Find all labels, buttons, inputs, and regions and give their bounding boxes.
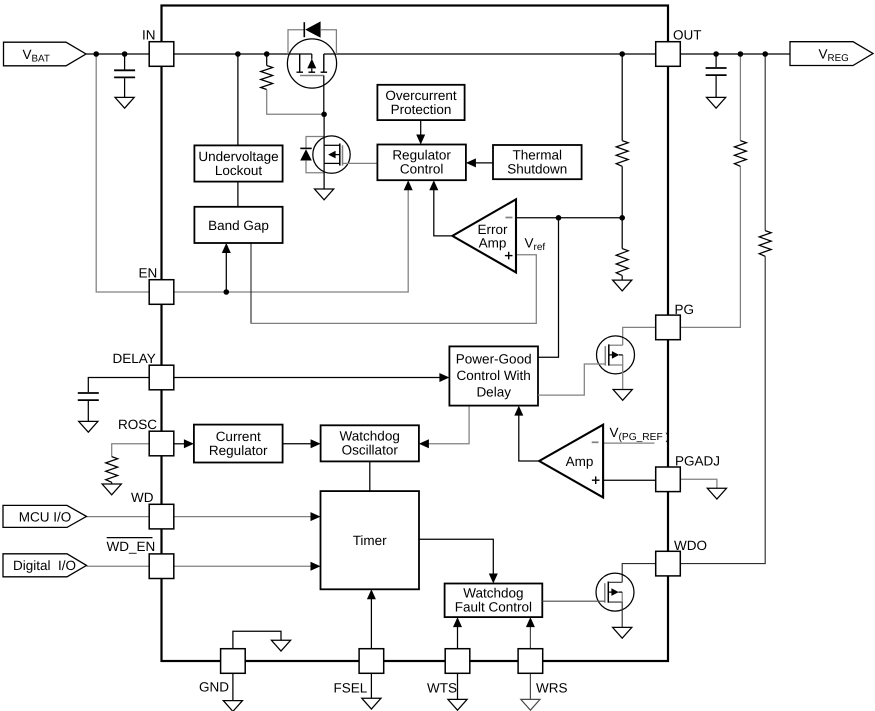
wire: EN junction up to Band Gap (arrow shaft) <box>225 252 227 293</box>
svg-text:Band Gap: Band Gap <box>208 218 269 233</box>
resistor R2 (feedback divider top) <box>616 141 628 167</box>
svg-text:Current: Current <box>216 429 261 444</box>
transistor Q2 body diode <box>300 148 312 160</box>
node: UVLO tap junction <box>235 51 241 57</box>
svg-text:Undervoltage: Undervoltage <box>198 149 278 164</box>
flag MCU I/O <box>3 505 87 527</box>
arrowhead: WRS to Watchdog Fault Control <box>526 617 535 627</box>
wire: Q3 gate to Power-Good Control (gray) <box>538 364 605 395</box>
svg-text:Protection: Protection <box>391 102 452 117</box>
wire: Current Regulator to Watchdog Oscillator (arrow shaft) <box>283 443 313 445</box>
svg-text:Digital I/O: Digital I/O <box>13 558 76 573</box>
arrowhead: Overcurrent Protection to Regulator Control <box>416 135 425 145</box>
svg-text:Thermal: Thermal <box>513 147 563 162</box>
wire: divider bottom to ground <box>621 276 623 281</box>
wire: GND pin internal reference <box>233 631 281 649</box>
pin OUT <box>656 42 681 67</box>
node: R1 tap junction <box>264 51 270 57</box>
wire: Q2 drain-source through line <box>323 114 325 189</box>
pin EN <box>149 280 174 305</box>
ground (feedback divider) <box>613 280 632 291</box>
wire: VBAT rail into IN pin and to pass FET left rail <box>86 53 312 55</box>
arrowhead: Error Amp to Regulator Control <box>429 180 438 190</box>
wire: GND pin external stub <box>232 673 234 700</box>
wire: WDO pull-up to WDO pin (gray) <box>680 256 765 563</box>
flag Digital I/O <box>3 554 87 577</box>
pin GND <box>221 649 246 674</box>
wire: Amp output up to Power-Good Control <box>519 415 539 462</box>
wire: IN rail down to Undervoltage Lockout <box>237 54 239 145</box>
node: EN to Band Gap junction <box>224 289 230 295</box>
node: PG pull-up junction <box>738 51 744 57</box>
svg-text:Delay: Delay <box>476 384 511 399</box>
wire: Timer output to Watchdog Fault Control <box>419 539 493 575</box>
wire: ROSC external resistor (gray) <box>112 444 150 457</box>
pin IN <box>149 42 174 67</box>
svg-text:WTS: WTS <box>427 681 457 696</box>
ground (FSEL pin) <box>362 698 381 709</box>
wire: Overcurrent Protection to Regulator Control (arrow shaft) <box>420 120 422 136</box>
svg-text:Fault Control: Fault Control <box>455 600 532 615</box>
transistor Q2 (gate driver NMOS) <box>313 114 378 189</box>
svg-text:Regulator: Regulator <box>209 443 268 458</box>
wire: ROSC pin to Current Regulator (arrow shaft) <box>174 443 186 445</box>
wire: Watchdog Oscillator to Timer <box>369 461 371 491</box>
undervoltage lockout block <box>194 145 282 181</box>
pass transistor Q1 body diode loop <box>288 30 336 54</box>
wire: Band Gap Vref output to Error Amp + input (gray) <box>250 243 252 324</box>
wire: Undervoltage Lockout to Band Gap <box>237 182 239 207</box>
wire: Digital I/O to WD_EN pin (gray) <box>87 565 150 567</box>
svg-text:Control With: Control With <box>457 368 531 383</box>
label: amp minus <box>592 441 599 443</box>
wire: WRS pin to Watchdog Fault Control (gray, arrow shaft) <box>529 626 531 649</box>
pin WD <box>149 504 174 529</box>
svg-text:WRS: WRS <box>536 681 568 696</box>
resistor R6 (ROSC) <box>106 457 118 483</box>
wire: DELAY pin to Power-Good Control (arrow shaft) <box>174 377 441 379</box>
pin WD_EN <box>149 554 174 579</box>
svg-text:Watchdog: Watchdog <box>340 429 400 444</box>
ground (delay capacitor) <box>79 421 98 432</box>
flag VBAT <box>4 42 87 66</box>
wire: Error Amp minus input to feedback divider node <box>516 217 622 219</box>
wire: Vref node down to Power-Good Control right edge <box>538 218 559 357</box>
svg-text:PGADJ: PGADJ <box>675 454 720 469</box>
svg-text:Oscillator: Oscillator <box>342 443 399 458</box>
ground (output capacitor) <box>707 97 726 108</box>
wire: WRS pin external stub (gray) <box>529 673 531 699</box>
svg-text:OUT: OUT <box>673 28 702 43</box>
svg-text:EN: EN <box>139 266 158 281</box>
op-amp U1 (Error Amp) <box>452 199 516 272</box>
wire: PG pull-up to PG pin (gray) <box>680 166 740 327</box>
svg-text:GND: GND <box>199 680 229 695</box>
label: error amp plus <box>505 252 513 260</box>
pin WRS <box>518 649 543 674</box>
ground (GND pin) <box>223 701 242 711</box>
capacitor C1 (input) <box>114 54 135 97</box>
wire: FSEL pin to Timer (arrow shaft) <box>370 598 372 649</box>
ground (Q3 source) <box>613 390 632 401</box>
wire: R1 to gate node (gray) <box>267 90 322 115</box>
wire: Error Amp output to Regulator Control <box>434 190 453 236</box>
wire: WDO pull-up from VREG rail (gray) <box>764 54 766 231</box>
capacitor C3 (delay) <box>78 378 149 422</box>
thermal shutdown block <box>493 145 582 179</box>
pin ROSC <box>149 431 174 456</box>
svg-text:Lockout: Lockout <box>215 163 263 178</box>
arrowhead: DELAY to Power-Good Control <box>439 373 449 382</box>
wire: PG pull-up from VREG rail (gray) <box>739 54 741 141</box>
ground (PGADJ) <box>707 488 726 499</box>
node: input capacitor junction <box>122 51 128 57</box>
ground (WRS pin) <box>521 699 540 710</box>
watchdog oscillator block <box>321 425 419 461</box>
arrowhead: ROSC to Current Regulator <box>184 439 194 448</box>
wire: feedback divider top from OUT rail <box>621 54 623 141</box>
power-good control with delay block <box>449 346 538 405</box>
node: Vref sense junction <box>556 215 562 221</box>
watchdog fault control block <box>445 584 543 618</box>
wire: VBAT to EN pin (gray) <box>96 54 149 292</box>
svg-text:PG: PG <box>675 302 695 317</box>
pin PGADJ <box>656 467 681 492</box>
svg-text:DELAY: DELAY <box>113 351 156 366</box>
node: VBAT-EN junction <box>93 51 99 57</box>
wire: Q1 gate down to gate node <box>323 76 325 115</box>
svg-text:FSEL: FSEL <box>334 681 368 696</box>
svg-text:WD_EN: WD_EN <box>107 539 156 554</box>
svg-text:ROSC: ROSC <box>118 417 157 432</box>
label: error amp minus <box>506 217 513 219</box>
arrowhead: Amp to Power-Good Control <box>514 406 523 416</box>
wire: WTS pin to Watchdog Fault Control (arrow shaft) <box>457 626 459 649</box>
ground (input capacitor) <box>115 97 134 108</box>
arrowhead: FSEL to Timer <box>367 589 376 599</box>
arrowhead: Thermal Shutdown to Regulator Control <box>466 158 476 167</box>
node: feedback divider tap on rail <box>619 51 625 57</box>
wire: WTS pin external stub <box>457 673 459 699</box>
arrowhead: WTS to Watchdog Fault Control <box>453 617 462 627</box>
node: feedback divider mid junction <box>619 215 625 221</box>
overcurrent protection block <box>377 85 464 120</box>
wire: Amp plus input to PGADJ pin <box>603 479 656 481</box>
band gap block <box>194 207 282 243</box>
wire: WD pin to Timer (gray, arrow shaft) <box>174 516 312 518</box>
ground (WTS pin) <box>448 699 467 710</box>
transistor Q4 (WDO open-drain NMOS) <box>542 564 655 628</box>
wire: Power-Good Control to Watchdog Oscillator (gray) <box>427 406 469 444</box>
transistor Q2 body diode loop <box>306 137 324 173</box>
label: amp plus <box>592 476 600 484</box>
regulator control block <box>377 145 466 181</box>
timer block <box>321 491 420 589</box>
svg-text:WD: WD <box>131 490 154 505</box>
wire: EN pin to Regulator Control riser (gray) <box>174 190 408 293</box>
svg-text:Watchdog: Watchdog <box>463 586 523 601</box>
pin WTS <box>445 649 470 674</box>
arrowhead: Timer to Watchdog Fault Control <box>489 574 498 584</box>
node: output capacitor junction <box>713 51 719 57</box>
wire: Q4 gate to Watchdog Fault Control (gray) <box>542 600 605 602</box>
chip boundary <box>162 6 669 662</box>
resistor R4 (PG pull-up) <box>734 141 746 167</box>
svg-text:Timer: Timer <box>353 533 387 548</box>
ground (Q2 source) <box>315 189 334 200</box>
flag VREG <box>790 42 873 66</box>
capacitor C2 (output) <box>706 54 727 97</box>
arrowhead: Power-Good Control to Watchdog Oscillator <box>419 439 429 448</box>
wire: FSEL pin external stub <box>370 673 372 698</box>
node: Q1 gate node junction <box>321 112 327 118</box>
svg-text:Amp: Amp <box>566 454 594 469</box>
wire: Q2 gate to Regulator Control (gray) <box>343 162 378 164</box>
wire: divider between resistors <box>621 166 623 248</box>
resistor R3 (feedback divider bottom) <box>616 249 628 276</box>
svg-text:Overcurrent: Overcurrent <box>385 88 457 103</box>
arrowhead: Current Regulator to Watchdog Oscillator <box>311 439 321 448</box>
wire: Amp minus input internal reference (gray) <box>603 442 654 444</box>
ground (ROSC resistor) <box>102 482 121 495</box>
transistor Q3 (PG open-drain NMOS) <box>538 327 656 395</box>
pin PG <box>656 315 681 340</box>
svg-text:Power-Good: Power-Good <box>456 352 532 367</box>
svg-text:IN: IN <box>142 28 156 43</box>
pin WDO <box>656 551 681 576</box>
svg-text:Regulator: Regulator <box>392 148 451 163</box>
pin DELAY <box>149 365 174 390</box>
svg-text:WDO: WDO <box>674 538 707 553</box>
wire: pass FET right rail to OUT pin and VREG flag <box>324 53 790 55</box>
svg-text:Control: Control <box>400 162 444 177</box>
arrowhead: WD_EN to Timer <box>311 562 321 571</box>
ground (GND internal reference) <box>271 640 290 651</box>
ground (Q4 source) <box>613 627 632 638</box>
node: WDO pull-up junction <box>762 51 768 57</box>
wire: MCU I/O to WD pin (gray) <box>87 516 150 518</box>
pass transistor Q1 body diode <box>304 21 320 37</box>
pass transistor Q1 (PMOS) <box>287 39 336 114</box>
current regulator block <box>194 425 283 463</box>
svg-text:MCU I/O: MCU I/O <box>19 509 72 524</box>
svg-text:Shutdown: Shutdown <box>507 161 567 176</box>
pin FSEL <box>359 649 384 674</box>
wire: Thermal Shutdown to Regulator Control (arrow shaft) <box>475 162 494 164</box>
op-amp U2 (Amp, power-good comparator) <box>539 425 603 498</box>
arrowhead: EN to Regulator Control <box>404 180 413 190</box>
arrowhead: WD to Timer <box>311 512 321 521</box>
resistor R1 (Q1 gate pull-up) <box>261 54 322 114</box>
wire: PGADJ to ground (gray) <box>680 479 717 488</box>
svg-text:Amp: Amp <box>479 236 507 251</box>
arrowhead: EN to Band Gap <box>222 243 231 253</box>
resistor R5 (WDO pull-up) <box>759 231 771 257</box>
overline for WD_EN <box>107 537 153 539</box>
wire: WD_EN pin to Timer (gray, arrow shaft) <box>174 565 312 567</box>
